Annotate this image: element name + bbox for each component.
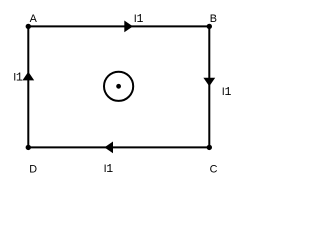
- node A junction dot: [26, 24, 31, 29]
- node D junction dot: [26, 145, 31, 150]
- arrowhead bottom edge current left: [104, 142, 113, 154]
- field symbol circle (current out of page): [104, 72, 133, 101]
- arrowhead top edge current right: [124, 21, 133, 33]
- svg-text:I1: I1: [134, 13, 144, 26]
- svg-text:D: D: [29, 163, 37, 175]
- svg-text:I1: I1: [104, 163, 114, 176]
- wire left edge D-A: [27, 26, 29, 147]
- svg-text:B: B: [210, 13, 217, 25]
- arrowhead right edge current down: [203, 78, 215, 87]
- field symbol center dot: [116, 84, 121, 89]
- wire bottom edge C-D: [28, 146, 209, 148]
- svg-text:I1: I1: [13, 72, 23, 85]
- svg-text:I1: I1: [222, 86, 232, 99]
- node B junction dot: [207, 24, 212, 29]
- svg-text:C: C: [210, 163, 218, 175]
- arrowhead left edge current up: [22, 72, 34, 81]
- wire top edge A-B: [28, 25, 209, 27]
- wire right edge B-C: [208, 26, 210, 147]
- node C junction dot: [207, 145, 212, 150]
- svg-text:A: A: [30, 13, 38, 25]
